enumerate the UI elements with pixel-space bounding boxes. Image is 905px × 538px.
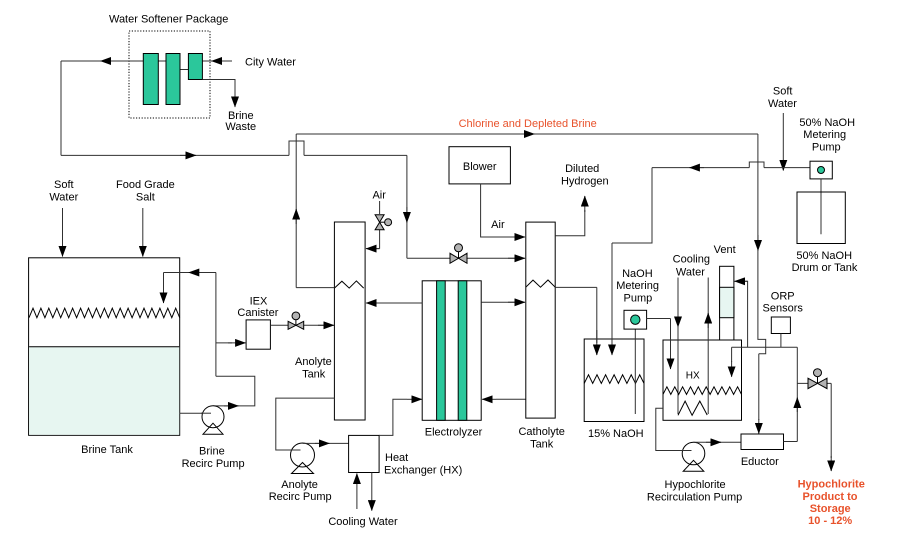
- catholyte tank: [526, 222, 555, 418]
- svg-text:Hypochlorite: Hypochlorite: [798, 479, 865, 491]
- arrow: softener outlet (left): [101, 60, 116, 62]
- wire: brine waste line: [203, 80, 235, 96]
- svg-text:Soft: Soft: [773, 86, 793, 98]
- svg-text:Soft: Soft: [54, 179, 74, 191]
- svg-text:Waste: Waste: [225, 121, 256, 133]
- svg-text:Cooling Water: Cooling Water: [328, 516, 398, 528]
- arrow: food grade salt into brine tank: [142, 208, 144, 257]
- 50% NaOH pump dip tube: [820, 179, 822, 234]
- arrow: cooling water out of HX: [371, 473, 373, 511]
- arrow: into 15% NaOH tank: [596, 330, 598, 355]
- arrow: chlorine flow down: [757, 235, 759, 251]
- valve: product valve: [814, 369, 822, 377]
- svg-text:Brine Tank: Brine Tank: [81, 444, 133, 456]
- svg-text:Cooling: Cooling: [673, 253, 710, 265]
- svg-text:Hydrogen: Hydrogen: [561, 176, 609, 188]
- arrow: flow down toward catholyte: [406, 207, 408, 223]
- 15% NaOH level zigzag: [584, 375, 644, 384]
- wire: ORP sensor tap: [780, 334, 782, 348]
- softener vessel 1: [143, 54, 158, 105]
- wire: pump discharge to eductor: [694, 441, 742, 443]
- svg-text:Recirculation Pump: Recirculation Pump: [647, 492, 742, 504]
- svg-text:Recirc Pump: Recirc Pump: [182, 458, 245, 470]
- svg-text:50% NaOH: 50% NaOH: [799, 117, 855, 129]
- arrow: riser up: [796, 398, 798, 413]
- wire: HX outlet to electrolyzer: [379, 399, 407, 435]
- hypochlorite tank: [663, 340, 742, 420]
- wire: electrolyzer to catholyte tank: [481, 301, 523, 303]
- wire: chlorine drop to eductor: [758, 134, 766, 420]
- wire: diluted hydrogen vent: [555, 210, 585, 236]
- arrow: soft water into brine tank: [62, 208, 64, 257]
- electrolyzer membrane 1: [437, 281, 446, 421]
- pump: Hypochlorite Recirculation Pump: [682, 442, 705, 465]
- wire: recirculated brine return to tank: [164, 273, 217, 291]
- pump: Brine Recirc Pump: [202, 406, 224, 428]
- svg-text:Storage: Storage: [810, 503, 851, 515]
- arrow: air into anolyte tank: [366, 248, 380, 250]
- svg-text:Air: Air: [491, 219, 505, 231]
- svg-text:HX: HX: [686, 370, 700, 381]
- svg-text:Heat: Heat: [385, 452, 408, 464]
- arrow: chlorine riser up: [295, 209, 297, 224]
- svg-text:Chlorine and Depleted Brine: Chlorine and Depleted Brine: [459, 118, 597, 130]
- arrow: NaOH into hypochlorite tank: [670, 350, 672, 369]
- heat exchanger (HX) box: [349, 435, 380, 472]
- brine tank liquid: [29, 347, 179, 435]
- svg-text:Catholyte: Catholyte: [518, 426, 564, 438]
- wire: NaOH metering pump discharge to hypochlorite tank: [647, 319, 671, 356]
- wire: soft water header (left vertical + horizontal to catholyte): [60, 61, 62, 155]
- 50% NaOH drum: [797, 192, 845, 244]
- arrow: product to storage: [830, 456, 832, 471]
- 15% NaOH tank: [584, 339, 644, 422]
- wire: cooling water supply into tank coil: [677, 278, 679, 415]
- 50% NaOH metering pump box: [810, 161, 832, 179]
- svg-text:Vent: Vent: [714, 244, 736, 256]
- svg-text:Pump: Pump: [812, 142, 841, 154]
- anolyte tank: [334, 222, 365, 420]
- svg-text:ORP: ORP: [771, 290, 795, 302]
- wire: 50% NaOH / soft water header: [652, 162, 810, 168]
- wire: electrolyzer to anolyte tank: [380, 302, 422, 304]
- wire: blower air to catholyte: [481, 184, 523, 237]
- svg-text:Product to: Product to: [803, 491, 858, 503]
- arrow: into vent tube: [735, 280, 748, 282]
- wire: anolyte pump discharge to HX: [303, 442, 349, 444]
- wire: eductor discharge riser: [784, 347, 798, 441]
- svg-text:Tank: Tank: [530, 439, 554, 451]
- arrow: cooling water up into HX: [356, 474, 358, 510]
- vent tube: [720, 266, 734, 340]
- wire: air line into anolyte tank: [368, 201, 380, 249]
- wire: catholyte to 15% NaOH tank: [555, 287, 597, 343]
- wire: cooling water return from coil: [707, 278, 709, 415]
- svg-text:Air: Air: [372, 190, 386, 202]
- brine tank: [29, 258, 180, 436]
- svg-text:Recirc Pump: Recirc Pump: [269, 491, 332, 503]
- HX coil inside tank: [678, 401, 707, 415]
- ORP sensor box: [771, 317, 790, 334]
- electrolyzer membrane 2: [458, 281, 467, 421]
- svg-text:Drum or Tank: Drum or Tank: [792, 262, 858, 274]
- pump: Anolyte Recirc Pump: [291, 443, 315, 467]
- electrolyzer: [422, 281, 481, 421]
- svg-text:Food Grade: Food Grade: [116, 179, 175, 191]
- arrow: pump discharge flow: [224, 405, 239, 407]
- svg-text:Water: Water: [676, 267, 705, 279]
- wire: catholyte tank to electrolyzer: [496, 398, 526, 400]
- arrow: soft water into catholyte tank: [508, 257, 525, 259]
- brine tank level zigzag: [29, 308, 180, 318]
- NaOH metering pump suction dip tube: [634, 329, 636, 414]
- svg-text:15% NaOH: 15% NaOH: [588, 428, 644, 440]
- svg-text:City Water: City Water: [245, 57, 296, 69]
- hypochlorite tank level zigzag: [663, 387, 742, 395]
- svg-text:Metering: Metering: [803, 129, 846, 141]
- arrow: return flow left: [189, 272, 203, 274]
- svg-text:Pump: Pump: [624, 292, 653, 304]
- svg-text:IEX: IEX: [250, 296, 268, 308]
- softener vessel 2: [166, 54, 180, 105]
- valve: air valve (vertical): [385, 219, 392, 226]
- svg-text:Canister: Canister: [237, 307, 278, 319]
- wire: chlorine and depleted brine line: [296, 134, 758, 288]
- wire: product line: [797, 383, 831, 458]
- arrow: into IEX canister: [228, 342, 246, 344]
- arrow: chlorine into eductor: [758, 419, 760, 434]
- arrow: return into brine tank: [163, 273, 165, 304]
- svg-text:Eductor: Eductor: [741, 456, 779, 468]
- svg-text:Water: Water: [768, 98, 797, 110]
- svg-text:Anolyte: Anolyte: [281, 479, 318, 491]
- wire: city water / softener inlet-outlet line: [61, 60, 232, 62]
- wire: brine pump discharge riser: [213, 273, 255, 406]
- wire: recirc return into hypochlorite tank: [732, 347, 798, 362]
- IEX canister: [246, 320, 270, 349]
- wire: soft water drop to catholyte tank: [407, 155, 523, 258]
- wire: softener unit 2-3 connector: [180, 69, 189, 71]
- wire: hypochlorite pump suction: [656, 408, 688, 450]
- svg-text:Water Softener Package: Water Softener Package: [109, 14, 228, 26]
- svg-text:Hypochlorite: Hypochlorite: [665, 479, 726, 491]
- wire: brine pump suction: [180, 412, 210, 414]
- arrow: soft water down: [782, 113, 784, 171]
- arrow: make-up into 15% NaOH tank: [611, 330, 613, 355]
- wire: IEX outlet to anolyte tank: [270, 324, 331, 326]
- svg-text:Tank: Tank: [302, 369, 326, 381]
- arrow: feed into anolyte tank: [318, 324, 334, 326]
- svg-text:Brine: Brine: [199, 446, 225, 458]
- softener vessel 3: [188, 54, 202, 80]
- catholyte tank break zigzag: [526, 280, 555, 287]
- arrow: air into catholyte tank: [508, 236, 525, 238]
- eductor: [741, 434, 784, 450]
- arrow: header flow left: [689, 167, 704, 169]
- wire: branch to IEX canister: [216, 342, 232, 344]
- wire: vent line from recirc return: [738, 281, 748, 347]
- svg-text:Electrolyzer: Electrolyzer: [425, 427, 483, 439]
- svg-text:NaOH: NaOH: [622, 268, 653, 280]
- svg-text:10 - 12%: 10 - 12%: [808, 515, 852, 527]
- arrow: chlorine header right: [518, 133, 535, 135]
- arrow: city water into softener: [212, 60, 233, 62]
- wire: 50% NaOH / soft water make-up drop: [612, 168, 652, 343]
- svg-text:Anolyte: Anolyte: [295, 356, 332, 368]
- svg-text:50% NaOH: 50% NaOH: [796, 250, 852, 262]
- svg-text:Blower: Blower: [463, 161, 497, 173]
- valve: catholyte soft water feed valve: [455, 244, 463, 252]
- svg-text:Exchanger (HX): Exchanger (HX): [384, 464, 462, 476]
- valve: IEX outlet valve: [292, 312, 300, 320]
- svg-text:Water: Water: [49, 192, 78, 204]
- water softener package dashed enclosure: [129, 31, 210, 118]
- arrow: return into tank: [731, 361, 733, 377]
- anolyte tank break zigzag: [334, 281, 363, 288]
- svg-text:Salt: Salt: [136, 192, 155, 204]
- arrow: brine waste down: [234, 90, 236, 107]
- svg-text:Metering: Metering: [616, 280, 659, 292]
- svg-text:Sensors: Sensors: [763, 303, 804, 315]
- wire: anolyte pump suction: [276, 398, 335, 450]
- arrow: soft water header flow right: [180, 154, 196, 156]
- NaOH metering pump box: [624, 310, 647, 329]
- blower box: [449, 147, 510, 184]
- svg-text:Diluted: Diluted: [565, 163, 599, 175]
